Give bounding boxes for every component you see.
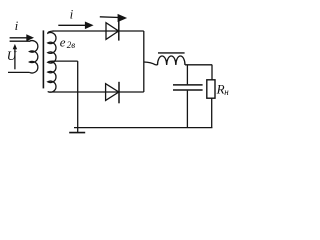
arrow diode current above D1 — [100, 14, 127, 22]
wire resistor top lead — [211, 65, 213, 80]
svg-text:e: e — [60, 34, 66, 49]
wire resistor bottom lead — [211, 98, 213, 127]
svg-text:н: н — [224, 87, 229, 97]
arrow secondary current i — [58, 22, 93, 30]
wire capacitor top lead — [186, 65, 188, 85]
wire secondary bottom to diode D2 — [53, 91, 144, 93]
svg-text:i: i — [15, 18, 19, 33]
arrow primary current i — [10, 34, 34, 41]
inductor choke L3 lead from bus — [144, 62, 158, 65]
capacitor C — [173, 85, 203, 90]
diode D1 — [106, 20, 119, 41]
label e2v (secondary EMF) — [60, 34, 76, 50]
transformer core — [42, 30, 44, 88]
label Rn — [216, 81, 230, 97]
wire primary top terminal — [10, 40, 31, 42]
svg-text:i: i — [70, 6, 74, 21]
wire bottom rail — [74, 127, 212, 129]
wire inductor to resistor — [185, 64, 212, 66]
inductor choke L3 — [158, 56, 186, 65]
inductor core line — [158, 52, 185, 54]
wire secondary top to diode D1 — [53, 30, 144, 32]
ground — [69, 128, 85, 133]
transformer primary winding L1 — [30, 41, 38, 73]
diode D2 — [106, 82, 119, 104]
arrow voltage U — [13, 44, 17, 69]
svg-text:U: U — [7, 48, 18, 63]
wire D1 cathode to output bus — [143, 31, 145, 92]
wire center tap — [48, 61, 78, 128]
wire capacitor bottom lead — [186, 91, 188, 128]
transformer secondary winding L2 — [48, 31, 56, 92]
wire primary bottom terminal — [8, 71, 30, 73]
svg-text:2в: 2в — [67, 40, 76, 50]
resistor Rn — [207, 80, 215, 98]
